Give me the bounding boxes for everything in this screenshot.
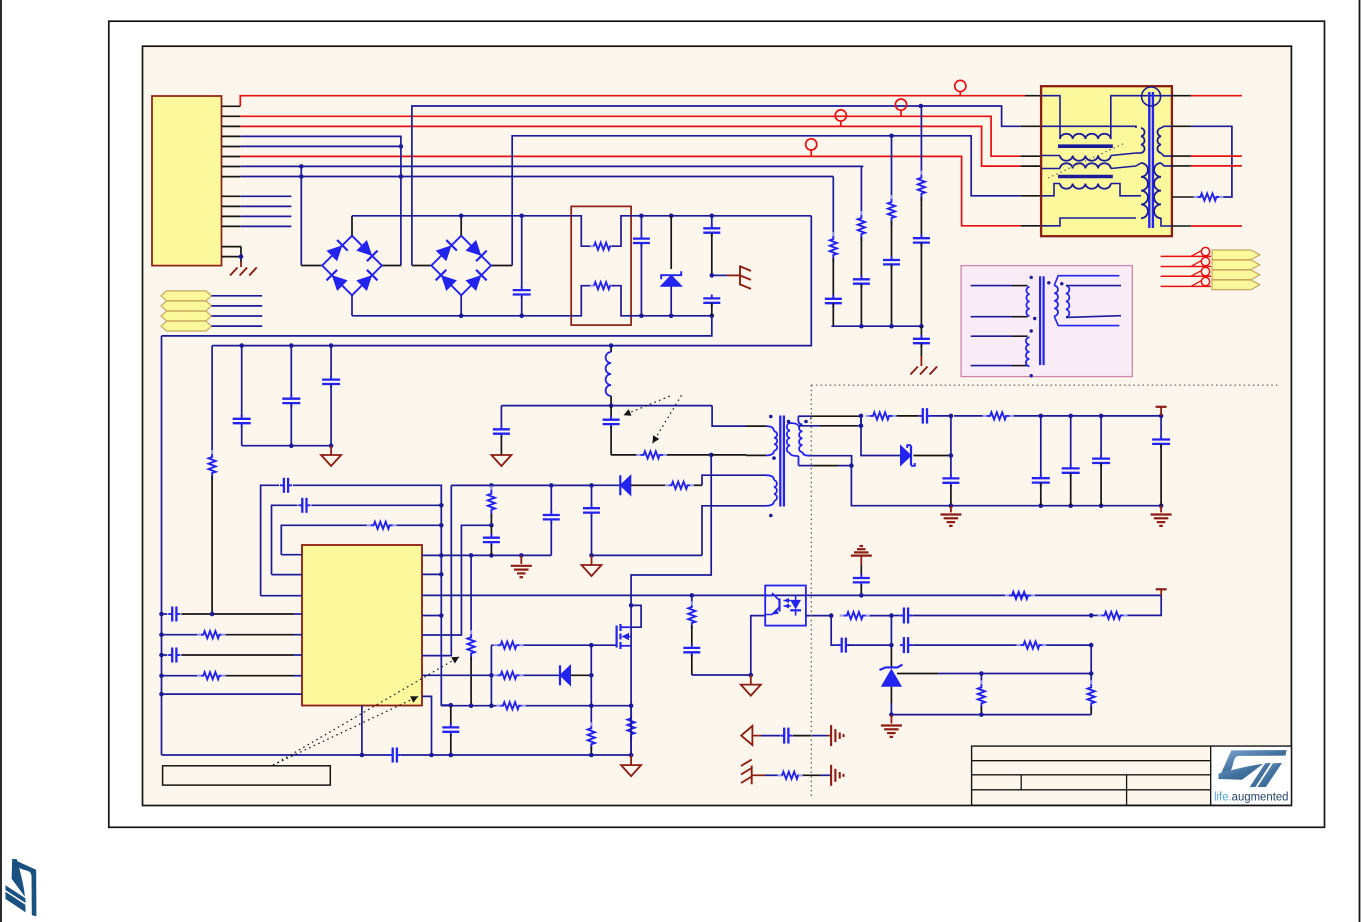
pin wire with res L5 [162, 634, 201, 636]
EMI filter module [1041, 86, 1172, 236]
wire sec top [798, 415, 811, 417]
junction [979, 671, 984, 676]
input arrow connector [161, 291, 212, 301]
wire left vertical bus [161, 336, 163, 755]
input arrow connector [161, 301, 212, 311]
junction [629, 703, 634, 708]
junction [859, 414, 864, 419]
capacitor Y to earth [920, 326, 922, 338]
feedback loop H3 [281, 525, 368, 554]
wire sec return [799, 465, 814, 467]
aux resistor [631, 484, 668, 486]
wire from arrow [212, 295, 263, 297]
junction [609, 403, 614, 408]
feedback loop H2 [272, 505, 298, 574]
callout ray2 [273, 696, 418, 765]
capacitor filter branch [825, 298, 842, 300]
wire red line4 [240, 156, 1020, 225]
choke L1 core bar [1058, 144, 1113, 148]
junction [690, 593, 695, 598]
spare transformer box [961, 266, 1132, 377]
earth GND5 [890, 715, 892, 724]
choke L2 core bar [1058, 175, 1113, 179]
TVS D3 [670, 216, 672, 269]
optocoupler U2 [765, 586, 806, 626]
junction [1089, 671, 1094, 676]
phase dot [772, 456, 776, 460]
NTC module box [571, 206, 631, 325]
junction [299, 164, 304, 169]
wire ref line [897, 673, 938, 675]
wire rails after box [631, 215, 811, 217]
spare primary2 wires [971, 335, 1012, 337]
junction [709, 453, 714, 458]
junction [859, 424, 864, 429]
comp resistor [1016, 644, 1020, 646]
connector J1 [152, 96, 222, 266]
phase dot [1033, 317, 1036, 320]
junction [589, 553, 594, 558]
junction [289, 343, 294, 348]
wire long bus Vdd [422, 594, 1161, 596]
junction [1068, 503, 1073, 508]
junction [749, 673, 754, 678]
snubber capacitor [610, 406, 612, 418]
phase dot [1030, 276, 1033, 279]
resistor filter branch [832, 177, 834, 237]
spare secondary wires [1054, 276, 1119, 286]
junction [949, 453, 954, 458]
junction [669, 214, 674, 219]
pin wire with cap L6 [162, 654, 168, 656]
gate pulldown resistor [590, 706, 592, 727]
branch resistor [691, 595, 693, 605]
wire fb bottom [891, 714, 1091, 716]
row2 chassis [741, 760, 752, 767]
snubber resistor [611, 454, 638, 456]
capacitor C3a [711, 216, 713, 228]
earth output2 [1160, 506, 1162, 513]
dotted border top [811, 384, 1278, 386]
wire diode anode [861, 416, 901, 456]
fb resistor2 [1098, 614, 1102, 616]
input arrow connector [161, 321, 212, 331]
T flag output [1160, 407, 1162, 416]
junction [849, 463, 854, 468]
wire 491 drop [490, 645, 492, 675]
EMI transformer winding LR [1154, 163, 1161, 218]
NTC RT2 [571, 286, 591, 316]
junction [429, 753, 434, 758]
choke L1 winding top [1042, 96, 1061, 139]
junction [639, 214, 644, 219]
junction [159, 673, 164, 678]
IC bottom pin wire [361, 706, 363, 756]
wire blue pin8 [240, 176, 833, 178]
phase dot [1060, 282, 1063, 285]
row2 resistor [778, 774, 782, 776]
row1 earth [830, 725, 832, 746]
capacitor C2 [640, 216, 642, 239]
transformer T1 primary [766, 426, 774, 431]
gate diode D5 [560, 665, 571, 685]
connector arrow [1212, 250, 1260, 260]
junction [710, 214, 715, 219]
wire comp line 645 [835, 644, 839, 646]
junction [399, 174, 404, 179]
connector pin circle [1201, 267, 1209, 275]
opto LED [790, 600, 801, 610]
wire out series resistor [983, 415, 987, 417]
resistor filter branch [920, 106, 922, 175]
junction [329, 443, 334, 448]
res divider 471 [470, 555, 472, 634]
transformer T1 core [779, 416, 781, 507]
wire IC pin R4 [422, 615, 441, 617]
bus755 [162, 754, 390, 756]
wire EMI line2 [1042, 126, 1137, 128]
capacitor C1 across rails [521, 216, 523, 288]
junction [859, 593, 864, 598]
wire IC pin R2 [422, 573, 441, 575]
output cap C10 [942, 477, 959, 479]
spare primary1 wires [971, 285, 1012, 287]
junction [889, 643, 894, 648]
junction [710, 273, 715, 278]
wire LED cathode out [806, 615, 831, 617]
junction [919, 324, 924, 329]
earth on gnd wire [520, 555, 522, 564]
wire blue pin7 [240, 165, 863, 167]
wire branch bottom bus [831, 325, 921, 327]
bridge rectifier BR1 [322, 236, 382, 296]
wire diode node down [950, 416, 952, 476]
output capacitor [1100, 416, 1102, 459]
wire AC line1 red [240, 96, 1025, 107]
snubber cap sec [922, 408, 924, 424]
junction [1089, 613, 1094, 618]
junction [439, 503, 444, 508]
junction [589, 643, 594, 648]
connector pin circle [1201, 257, 1209, 265]
output capacitor [1070, 416, 1072, 468]
junction [439, 553, 444, 558]
junction [459, 314, 464, 319]
wire IC gnd pin [422, 554, 551, 556]
junction [289, 443, 294, 448]
svg-text:life.augmented: life.augmented [1214, 790, 1289, 804]
snubber resistor sec [866, 415, 870, 417]
wire EMI out6 red [1172, 225, 1191, 227]
wire EMI out4 red [1172, 165, 1191, 167]
junction [159, 632, 164, 637]
wire Vcc line [451, 484, 591, 486]
series cap fb [891, 615, 899, 617]
wire EMI out1 red [1172, 95, 1191, 97]
wire dc bus right loop [212, 216, 811, 346]
wire sec1 top to node [810, 418, 811, 420]
bridge rectifier BR2 [431, 236, 491, 296]
choke L2 winding bottom [1042, 184, 1061, 196]
page edge lines [0, 0, 2, 922]
junction [449, 753, 454, 758]
spare secondary1 winding [1054, 286, 1058, 316]
bulk capacitor Cc [330, 346, 332, 380]
bulk capacitor Cb [290, 346, 292, 399]
wire from arrow [212, 325, 263, 327]
series cap on bus755 [392, 748, 394, 763]
output capacitor [1160, 416, 1162, 440]
wire to opto ground [692, 674, 751, 676]
junction [1039, 414, 1044, 419]
junction [889, 613, 894, 618]
wire IC pin R7 [422, 696, 432, 755]
resistor on mid bus [496, 705, 500, 707]
spare primary2 winding [1026, 337, 1030, 366]
wire output red [1161, 285, 1211, 287]
connector pin circle [1201, 247, 1209, 255]
wire EMI out2 blue loop [1172, 125, 1191, 127]
phase dot [1047, 281, 1050, 284]
wire output red [1161, 255, 1211, 257]
wire from arrow [212, 315, 263, 317]
junction [489, 703, 494, 708]
wire out gnd rail [851, 466, 1161, 506]
junction [589, 483, 594, 488]
transformer T1 sec1 [790, 423, 798, 426]
wire blue mid1 to bridge2 left [412, 265, 431, 267]
junction [329, 343, 334, 348]
schematic area [143, 46, 1292, 805]
chassis earth [910, 367, 918, 375]
phase dot [769, 514, 773, 518]
phase dot [769, 415, 773, 419]
EMI coupling dotted [1048, 143, 1125, 178]
wire second vertical [211, 346, 213, 454]
test point [955, 80, 966, 91]
junction [489, 673, 494, 678]
wire fb mid [866, 615, 892, 617]
junction [1068, 414, 1073, 419]
input arrow connector [161, 311, 212, 321]
junction [889, 324, 894, 329]
zener TL431 [890, 616, 892, 648]
resistor on loop [1194, 196, 1198, 198]
divider resistor2 [1090, 645, 1092, 684]
choke L1 winding bottom [1042, 155, 1061, 157]
ground GND1 [330, 446, 332, 455]
junction [519, 314, 524, 319]
outer sheet border [109, 21, 1325, 827]
capacitor at 861 [853, 577, 870, 579]
IC left pin wires [261, 595, 302, 597]
junction [589, 703, 594, 708]
callout arrow to cap [624, 396, 670, 415]
bulk capacitor Ca [241, 346, 243, 417]
junction [629, 753, 634, 758]
phase dot [1030, 329, 1033, 332]
wire DC+ rail [351, 216, 353, 236]
connector arrow [1212, 280, 1260, 290]
chassis ground at J1 [240, 262, 242, 267]
wire gate line from IC [422, 674, 491, 676]
junction [889, 134, 894, 139]
wire 525 node to pin jog [422, 525, 491, 635]
opto emitter wire [751, 616, 765, 675]
wire red line3 [240, 126, 1020, 166]
row1 arrow [741, 726, 752, 745]
feedback loop H1 [261, 485, 279, 595]
phase dot [1030, 374, 1033, 377]
junction [439, 613, 444, 618]
test point [835, 110, 846, 121]
ground GND6 [630, 755, 632, 765]
earth output1 [950, 506, 952, 513]
wire gate net vertical [590, 645, 592, 706]
wire dc minus loop [162, 316, 712, 336]
junction [459, 214, 464, 219]
cap Vcc to gnd wire [550, 485, 552, 512]
feedback resistor on bus [1005, 594, 1009, 596]
wire EMI out3 red [1172, 155, 1191, 157]
junction [949, 414, 954, 419]
wire cap bottoms [242, 445, 331, 447]
output capacitor [1040, 416, 1042, 478]
ground GND3 [591, 555, 593, 565]
wire aux top [702, 475, 766, 485]
partial ST logo bottom left [5, 859, 36, 916]
divider resistor1 [980, 674, 982, 685]
capacitor to gnd [500, 406, 502, 428]
junction [519, 214, 524, 219]
choke L2 winding top [1042, 168, 1061, 170]
source resistor [630, 706, 632, 717]
junction [159, 653, 164, 658]
connector arrow [1212, 270, 1260, 280]
junction [589, 753, 594, 758]
wire IC pin R5 Vcc [422, 485, 451, 655]
EMI transformer winding UL [1141, 128, 1145, 153]
resistor filter branch [891, 136, 893, 199]
junction [609, 343, 614, 348]
row1 cap [783, 728, 785, 744]
junction [159, 692, 164, 697]
wire primary top [712, 406, 746, 427]
EMI transformer core [1148, 92, 1150, 228]
ground GND4 [750, 675, 752, 685]
junction [1099, 414, 1104, 419]
note box [163, 766, 331, 785]
junction [1099, 503, 1104, 508]
junction [629, 603, 634, 608]
junction [859, 324, 864, 329]
title block [972, 746, 1292, 805]
fb resistor1 [840, 614, 844, 616]
connector arrow [1212, 260, 1260, 270]
EMI transformer winding UR [1157, 128, 1161, 153]
junction [239, 343, 244, 348]
wire output red [1161, 266, 1211, 268]
MOSFET Q1 [631, 605, 641, 627]
resistor filter branch [860, 166, 862, 215]
wire blue pin4 [240, 136, 401, 265]
spare core [1039, 276, 1041, 365]
pin wire with res L7 [162, 675, 201, 677]
NTC RT1 [571, 216, 591, 246]
junction [449, 703, 454, 708]
wire snubber top [501, 405, 611, 407]
junction [439, 523, 444, 528]
junction [639, 314, 644, 319]
junction [439, 572, 444, 577]
test point [895, 99, 906, 110]
ground GND2 [491, 455, 511, 466]
capacitor filter branch [853, 278, 870, 280]
EMI transformer winding LL [1141, 163, 1148, 218]
controller IC U1 [302, 545, 422, 706]
wire to bridge1 left [300, 166, 302, 265]
pin wire with cap L4 [162, 613, 168, 615]
EMI transformer top circle [1142, 87, 1161, 106]
junction [1159, 503, 1164, 508]
resistor R vert [211, 450, 213, 454]
earth at C3 midpoint [712, 274, 727, 276]
wire mid bus 705 [441, 705, 497, 707]
wire fb down [1126, 595, 1162, 615]
gate wire [522, 644, 617, 646]
junction [669, 314, 674, 319]
dotted border left [810, 385, 812, 796]
phase dot [787, 420, 791, 424]
wire red line2 [240, 116, 1020, 156]
wire DC- rail [351, 295, 353, 316]
wire EMI line6 [1042, 218, 1137, 226]
wire gnd link [592, 554, 703, 556]
T flag [1160, 589, 1162, 595]
junction [829, 613, 834, 618]
output diode D6 [901, 446, 912, 466]
junction [299, 174, 304, 179]
EMI internal links [1161, 126, 1172, 128]
junction [360, 753, 365, 758]
junction [710, 314, 715, 319]
ST logo [1211, 746, 1292, 805]
callout arrow to resistor [653, 395, 682, 443]
wire from arrow [212, 305, 263, 307]
wire opto cathode branch [831, 616, 835, 646]
junction [489, 483, 494, 488]
spare secondary2 winding [1066, 286, 1069, 318]
junction [469, 703, 474, 708]
junction [1089, 643, 1094, 648]
capacitor filter branch [913, 237, 930, 239]
aux diode D4 [592, 484, 621, 486]
RC chain on Vcc [490, 485, 492, 489]
cap at 450 [450, 705, 452, 725]
junction [979, 712, 984, 717]
junction [159, 612, 164, 617]
power earth inverted [851, 554, 872, 556]
capacitor C3b [703, 297, 720, 299]
junction [549, 483, 554, 488]
junction [589, 673, 594, 678]
junction [949, 503, 954, 508]
callout ray1 [273, 657, 459, 765]
junction [1159, 414, 1164, 419]
wire blue pin5 [240, 145, 401, 147]
capacitor filter branch [883, 259, 900, 261]
junction [399, 144, 404, 149]
